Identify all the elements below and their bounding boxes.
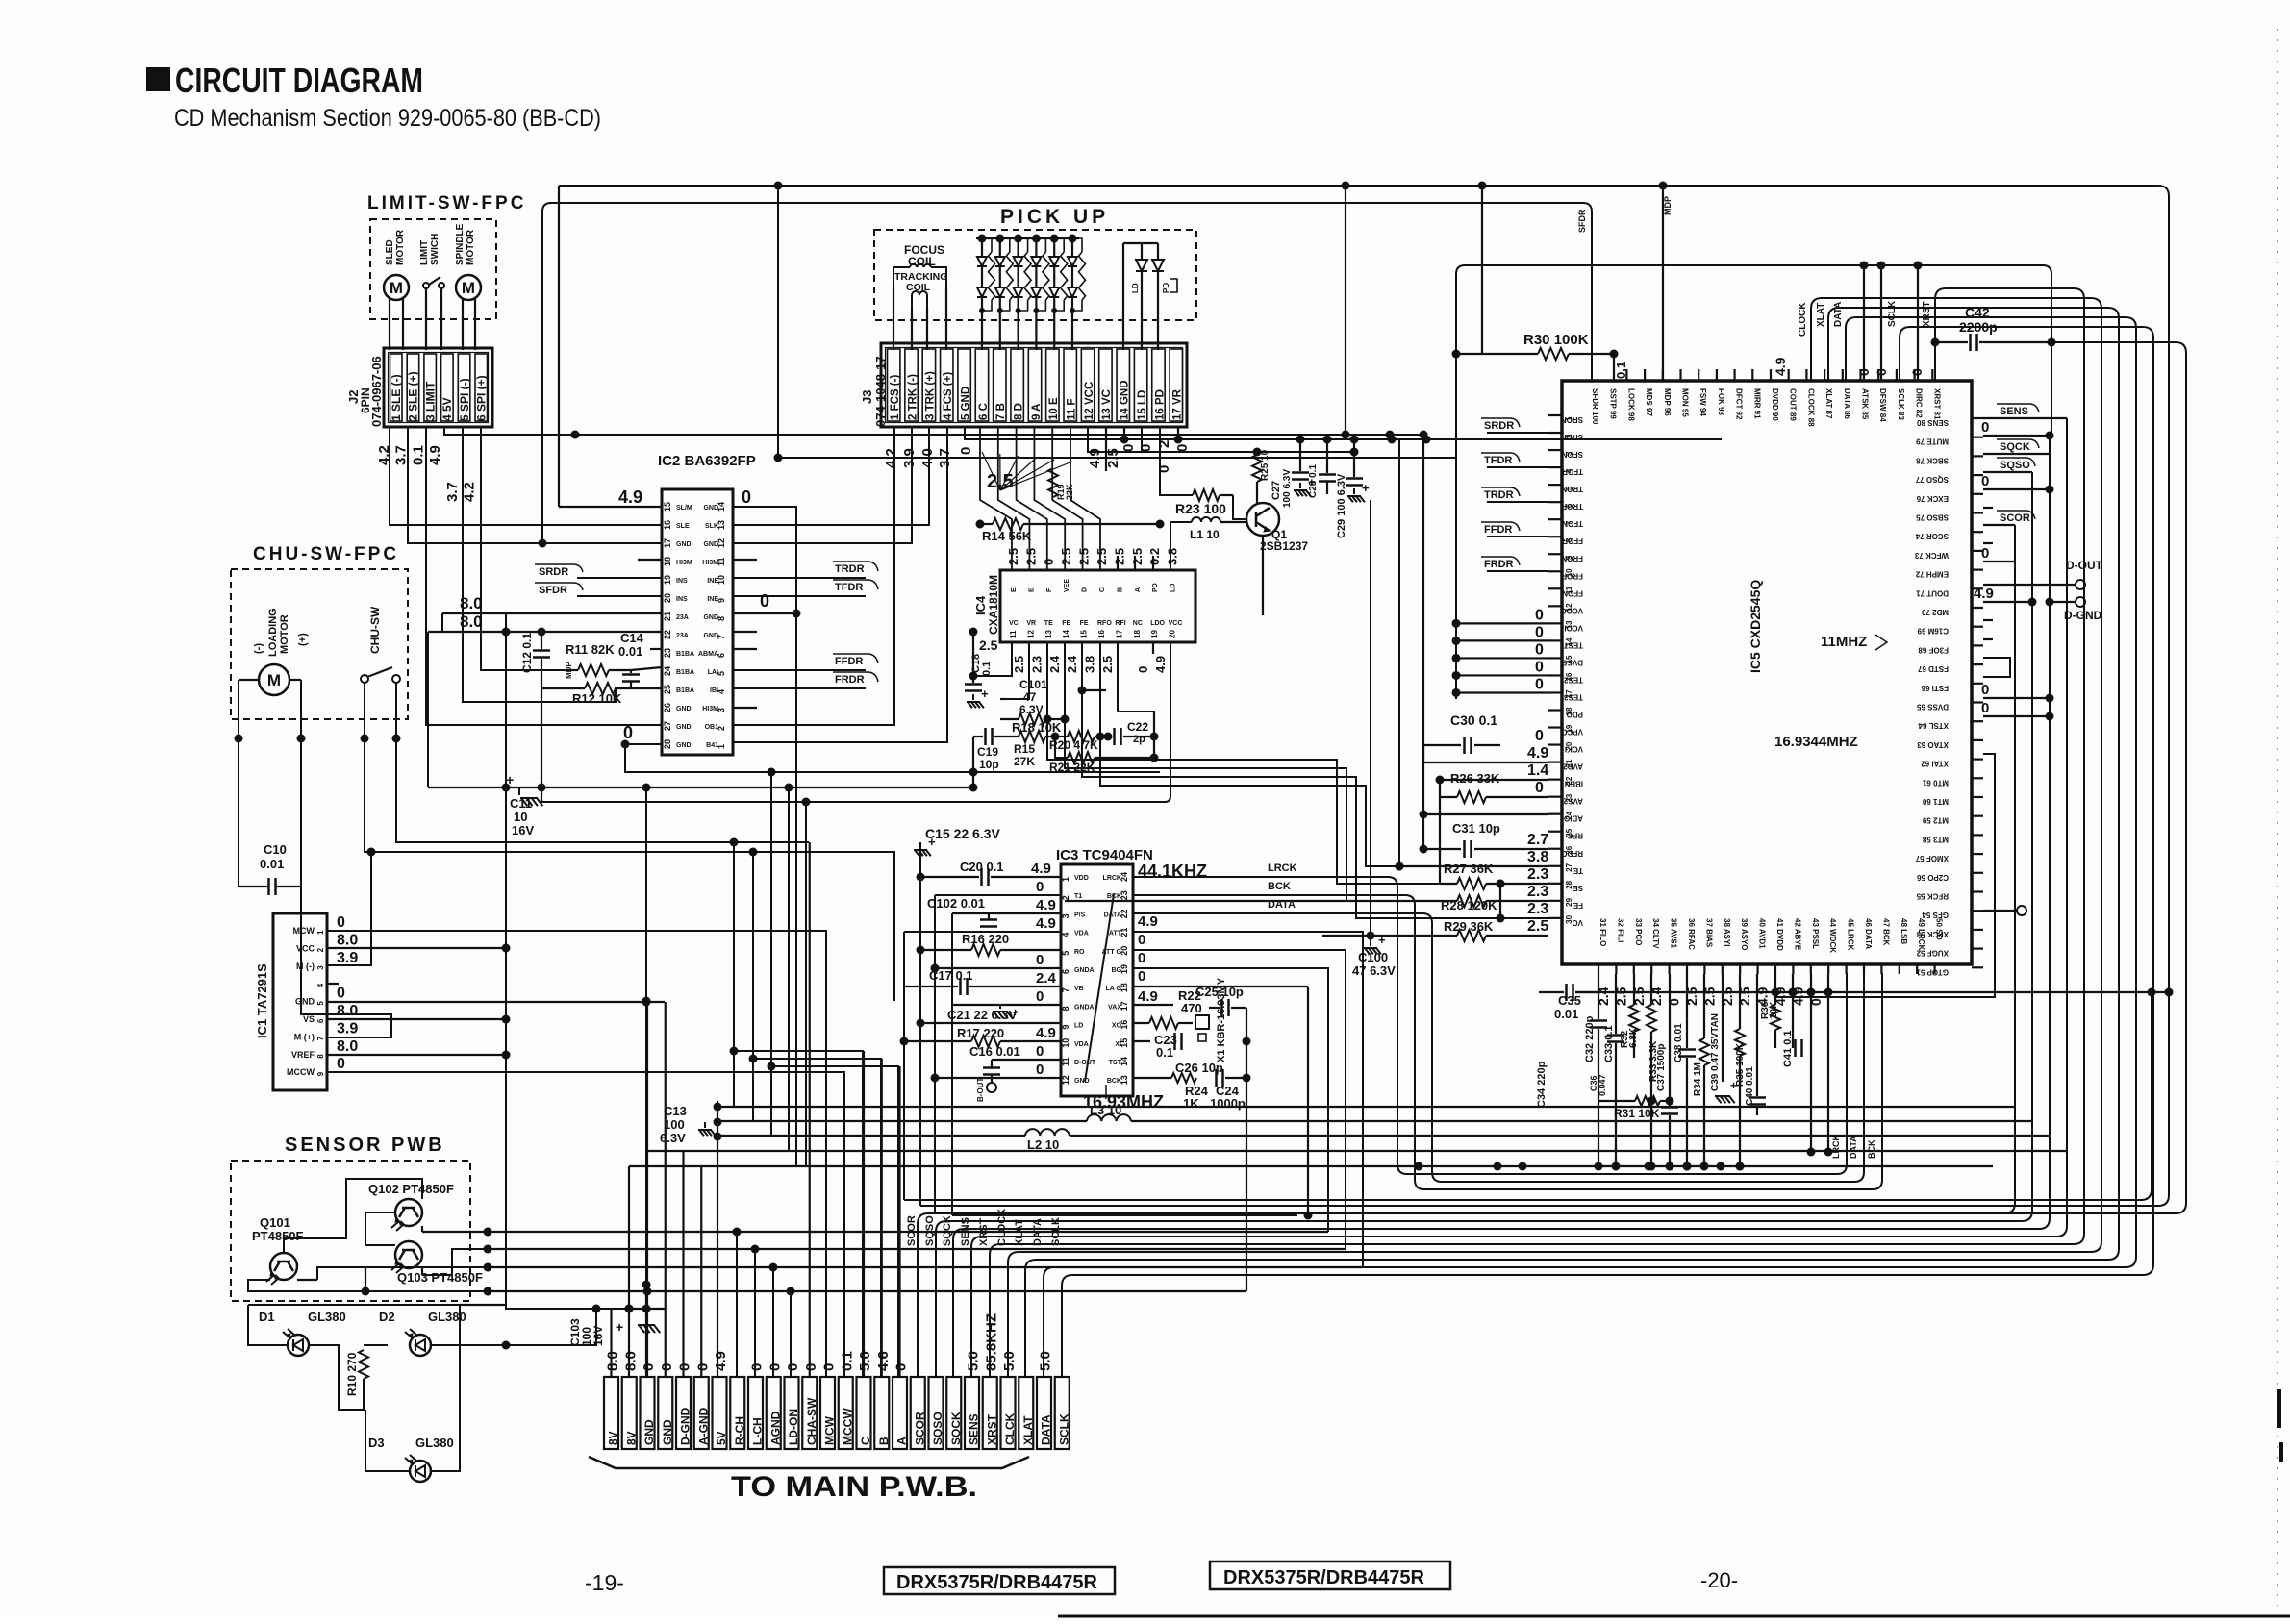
svg-text:8.0: 8.0 bbox=[337, 1038, 358, 1055]
wire IC2 pin13 to J3 pin3 bbox=[733, 427, 929, 525]
svg-text:DATA: DATA bbox=[1104, 912, 1121, 918]
wire DOUT pin71 to D-OUT bbox=[1983, 584, 2076, 586]
IC5 pin 57 XMOF bbox=[1972, 853, 1983, 855]
svg-text:C35: C35 bbox=[1558, 993, 1581, 1008]
motor LOADING bbox=[259, 664, 289, 695]
svg-text:XLAT 87: XLAT 87 bbox=[1824, 388, 1833, 419]
wire sensor 8V feed bbox=[506, 1309, 596, 1345]
IC5 pin 96 MDP bbox=[1662, 369, 1664, 381]
IC5 pin 23 AVS2 bbox=[1548, 796, 1562, 798]
pickup resistor 6 bbox=[1072, 238, 1082, 252]
IC5 pin 90 DVDD bbox=[1770, 369, 1772, 381]
IC5 pin 6 TROR bbox=[1548, 501, 1562, 503]
svg-text:26: 26 bbox=[663, 703, 672, 712]
wire vertical x=1399 from H1 to 5V line bbox=[1345, 186, 1346, 435]
wire connector pin GND bbox=[665, 1002, 667, 1377]
label TFDR wire IC2 pin9 bbox=[733, 595, 866, 597]
svg-text:FOK 93: FOK 93 bbox=[1717, 388, 1725, 416]
transistor Q1 2SB1237 bbox=[1246, 503, 1279, 536]
svg-text:B41: B41 bbox=[706, 742, 718, 749]
IC5 pin 24 ADIO bbox=[1548, 813, 1562, 815]
svg-text:D-OUT: D-OUT bbox=[1074, 1060, 1096, 1066]
svg-text:2SB1237: 2SB1237 bbox=[1260, 539, 1308, 553]
IC5 pin 74 SCOR bbox=[1972, 531, 1983, 533]
IC5 pin 8 FFOR bbox=[1548, 536, 1562, 537]
svg-text:R-CH: R-CH bbox=[733, 1416, 746, 1445]
svg-text:TRDR: TRDR bbox=[835, 563, 865, 575]
J2 pin 1 slot bbox=[390, 354, 403, 421]
svg-text:470: 470 bbox=[1181, 1001, 1202, 1015]
svg-text:0: 0 bbox=[1981, 473, 1989, 489]
svg-text:2 TRK (-): 2 TRK (-) bbox=[907, 374, 919, 420]
svg-text:1.4: 1.4 bbox=[1527, 762, 1548, 779]
wire J3 pin7 to IC4 bbox=[998, 427, 1030, 570]
svg-text:B: B bbox=[877, 1437, 891, 1445]
wire outer right loop from C42 line bbox=[935, 342, 2186, 1213]
svg-text:+: + bbox=[1362, 481, 1370, 495]
IC5 pin 19 VPCO bbox=[1548, 726, 1562, 728]
wire IC5 pin26 RFDC link bbox=[1396, 862, 1404, 871]
svg-text:0: 0 bbox=[803, 1363, 819, 1371]
svg-text:10: 10 bbox=[514, 810, 527, 824]
wire J3 pin10 to IC4 bbox=[1052, 427, 1082, 570]
J3 pin 11 slot bbox=[1064, 349, 1076, 421]
wire pin99 SSTP stub with 0.1 bbox=[1613, 354, 1615, 381]
svg-text:9: 9 bbox=[1061, 1025, 1070, 1030]
svg-text:0: 0 bbox=[1981, 700, 1989, 716]
svg-text:37 BIAS: 37 BIAS bbox=[1704, 918, 1713, 948]
svg-text:PDO: PDO bbox=[1567, 711, 1583, 719]
svg-text:C33 0.1: C33 0.1 bbox=[1603, 1025, 1615, 1062]
svg-text:RFDC: RFDC bbox=[1562, 849, 1583, 858]
svg-text:AVD2: AVD2 bbox=[1563, 762, 1583, 771]
svg-text:4 5V: 4 5V bbox=[440, 397, 454, 421]
svg-text:HI3M: HI3M bbox=[702, 706, 718, 712]
wire IC5 pin34 CLTV extension bbox=[1650, 1101, 1652, 1166]
bus line left stubs bbox=[645, 1285, 647, 1377]
label FFDR wire IC2 pin5 bbox=[733, 669, 866, 671]
svg-text:CXA1810M: CXA1810M bbox=[987, 575, 1000, 635]
wire pins41-43 4.9 bus bbox=[1575, 991, 2169, 993]
svg-text:XMOF 57: XMOF 57 bbox=[1915, 854, 1949, 862]
IC5 pin 7 TFON bbox=[1548, 518, 1562, 520]
svg-text:33 PCO: 33 PCO bbox=[1634, 918, 1643, 945]
pickup photodiode D6 bbox=[1069, 235, 1077, 243]
wire IC2 pin12 to J3 pin2 bbox=[733, 427, 912, 543]
svg-text:SQSO 77: SQSO 77 bbox=[1915, 475, 1949, 484]
wires IC4 top pins 7-9 stubs bbox=[1117, 556, 1119, 570]
wire net XLAT slot24 bbox=[1025, 308, 2119, 1377]
J3 pin 10 slot bbox=[1046, 349, 1059, 421]
svg-text:FFDR: FFDR bbox=[835, 656, 863, 667]
svg-text:AVS2: AVS2 bbox=[1563, 797, 1583, 806]
svg-text:50 SO: 50 SO bbox=[1935, 918, 1944, 940]
svg-text:DVSS 65: DVSS 65 bbox=[1917, 703, 1949, 712]
wire connector pin A bbox=[898, 1066, 900, 1377]
svg-text:C102 0.01: C102 0.01 bbox=[927, 896, 985, 911]
svg-text:16V: 16V bbox=[512, 823, 534, 837]
bus line y=1181 with L2 bbox=[717, 1135, 1025, 1137]
svg-text:INS: INS bbox=[676, 578, 688, 585]
svg-text:FSTI 66: FSTI 66 bbox=[1921, 684, 1949, 692]
svg-text:85.8KHZ: 85.8KHZ bbox=[983, 1313, 999, 1371]
svg-text:TES3: TES3 bbox=[1563, 692, 1583, 701]
IC5 pin 56 C2PO bbox=[1972, 872, 1983, 874]
TO MAIN PWB pin GND bbox=[658, 1377, 672, 1449]
svg-text:2.5: 2.5 bbox=[1006, 548, 1020, 565]
svg-text:2: 2 bbox=[1061, 895, 1070, 900]
wire RFDC column down bbox=[1398, 439, 1400, 866]
svg-text:30: 30 bbox=[1565, 914, 1573, 923]
svg-text:LD: LD bbox=[1170, 584, 1177, 592]
label SFDR wire to IC2 pin20 bbox=[577, 595, 662, 597]
svg-text:C15 22 6.3V: C15 22 6.3V bbox=[925, 826, 1000, 841]
IC5 pin 49 LRCK bbox=[1916, 964, 1918, 974]
svg-text:MT0 61: MT0 61 bbox=[1922, 778, 1949, 787]
wire IC1 VREF 8.0 bbox=[327, 1054, 506, 1056]
resistor R19 22K bbox=[1048, 468, 1058, 497]
IC5 pin 89 COUT bbox=[1788, 369, 1790, 381]
svg-text:CHU-SW-FPC: CHU-SW-FPC bbox=[253, 544, 399, 564]
svg-text:0.1: 0.1 bbox=[410, 445, 426, 465]
svg-text:LOADING: LOADING bbox=[267, 608, 279, 657]
svg-text:22K: 22K bbox=[1065, 484, 1074, 500]
IC5 pin 85 ATSK bbox=[1859, 369, 1861, 381]
TO MAIN PWB pin SCOR bbox=[911, 1377, 925, 1449]
svg-text:SBSO 75: SBSO 75 bbox=[1916, 513, 1949, 522]
svg-text:VS: VS bbox=[303, 1014, 315, 1024]
svg-text:FE: FE bbox=[1062, 620, 1070, 627]
J3 pin 15 slot bbox=[1134, 349, 1146, 421]
svg-text:FRON: FRON bbox=[1561, 554, 1583, 562]
IC5 pin 82 DIRC bbox=[1913, 369, 1915, 381]
wire C100 column bbox=[1370, 500, 1371, 936]
pickup photodiode D2 bbox=[995, 235, 1004, 243]
svg-text:19: 19 bbox=[663, 575, 672, 585]
IC5 pin 91 MIRR bbox=[1751, 369, 1753, 381]
svg-text:D-GND: D-GND bbox=[2064, 609, 2102, 622]
label TRDR wire IC2 pin10 bbox=[733, 577, 866, 579]
IC5 pin 63 XTAO bbox=[1972, 739, 1983, 741]
svg-text:4: 4 bbox=[1061, 933, 1070, 937]
svg-text:4.9: 4.9 bbox=[1773, 357, 1788, 376]
svg-text:XO: XO bbox=[1112, 1023, 1122, 1030]
IC5 pin 86 DATA bbox=[1842, 369, 1844, 381]
J2 pin 5 slot bbox=[458, 354, 470, 421]
wire H1 right loop bbox=[559, 186, 2169, 1206]
svg-text:23A: 23A bbox=[676, 633, 689, 639]
svg-text:0: 0 bbox=[1535, 659, 1544, 675]
wire J3 pin6 to IC4 bbox=[980, 427, 1012, 570]
svg-text:0: 0 bbox=[694, 1363, 711, 1371]
wire DATA IC3 pin22 to IC5 pin46 bbox=[1133, 913, 1864, 1182]
svg-text:VPCO: VPCO bbox=[1561, 728, 1583, 737]
svg-text:4.9: 4.9 bbox=[427, 445, 443, 465]
wire CHU-SW right down bbox=[396, 683, 809, 842]
IC5 pin 75 SBSO bbox=[1972, 512, 1983, 513]
svg-text:6 C: 6 C bbox=[978, 403, 990, 420]
tracking coil symbol bbox=[911, 295, 913, 308]
svg-text:2.5: 2.5 bbox=[1012, 656, 1026, 673]
wire SQSO curve pin77 bbox=[1983, 471, 2032, 473]
svg-text:2.3: 2.3 bbox=[1527, 866, 1548, 883]
svg-text:-19-: -19- bbox=[585, 1570, 624, 1595]
J3 pin 4 slot bbox=[941, 349, 953, 421]
wire GFS pin54 test point bbox=[1983, 910, 2017, 912]
IC5 pin 9 FRON bbox=[1548, 553, 1562, 555]
svg-text:TEST: TEST bbox=[1563, 640, 1583, 649]
svg-text:VDA: VDA bbox=[1074, 1041, 1089, 1048]
svg-text:4.6: 4.6 bbox=[875, 1351, 892, 1371]
TO MAIN PWB pin C bbox=[857, 1377, 871, 1449]
wire vertical x=1497 bbox=[1439, 780, 1441, 884]
svg-text:VR: VR bbox=[1026, 620, 1036, 627]
svg-text:M: M bbox=[390, 279, 403, 297]
svg-text:SENS: SENS bbox=[968, 1413, 981, 1445]
svg-text:8.0: 8.0 bbox=[622, 1351, 639, 1371]
junction dots on y=276 rail bbox=[1860, 262, 1869, 270]
svg-text:SQSO: SQSO bbox=[2000, 460, 2030, 471]
svg-text:DATA: DATA bbox=[1040, 1414, 1053, 1445]
svg-text:R31 10K: R31 10K bbox=[1614, 1107, 1660, 1120]
svg-text:6: 6 bbox=[316, 1018, 325, 1023]
label SRDR wire to IC2 pin19 bbox=[577, 577, 662, 579]
J3 pin 1 slot bbox=[888, 349, 900, 421]
svg-text:4.0: 4.0 bbox=[919, 448, 936, 468]
IC5 pin 69 C16M bbox=[1972, 626, 1983, 628]
wire Q1 collector down bbox=[1262, 536, 1264, 615]
svg-text:R25 10: R25 10 bbox=[1260, 449, 1271, 481]
svg-text:3: 3 bbox=[316, 965, 325, 970]
IC5 pin 53 XPCK bbox=[1972, 929, 1983, 931]
svg-text:100: 100 bbox=[664, 1117, 685, 1132]
svg-text:3.7: 3.7 bbox=[444, 482, 461, 502]
svg-text:0: 0 bbox=[1036, 1062, 1044, 1078]
svg-text:6.3V: 6.3V bbox=[660, 1131, 686, 1145]
TO MAIN PWB pin D-GND bbox=[676, 1377, 691, 1449]
wire IC2 pin21 8.0 bbox=[442, 612, 662, 614]
svg-text:MT2 59: MT2 59 bbox=[1922, 816, 1949, 825]
wire IC1 MCCW to connector MCCW bbox=[327, 1072, 844, 1377]
svg-text:41 DVDD: 41 DVDD bbox=[1775, 918, 1784, 951]
svg-text:16 PD: 16 PD bbox=[1154, 389, 1166, 420]
svg-text:GND: GND bbox=[676, 724, 692, 731]
wire IC2 pin6 stub bbox=[733, 648, 757, 650]
TO MAIN PWB pin R-CH bbox=[730, 1377, 744, 1449]
svg-text:MCCW: MCCW bbox=[287, 1067, 315, 1077]
svg-text:TST: TST bbox=[1109, 1060, 1122, 1066]
svg-text:23: 23 bbox=[663, 648, 672, 658]
svg-text:36 RFAC: 36 RFAC bbox=[1687, 918, 1696, 950]
svg-text:49 LRCK: 49 LRCK bbox=[1917, 918, 1925, 951]
TO MAIN PWB pin SQCK bbox=[946, 1377, 961, 1449]
wire J3 pin13 down bbox=[1105, 427, 1107, 471]
svg-text:LIMIT-SW-FPC: LIMIT-SW-FPC bbox=[367, 193, 526, 213]
svg-text:R12 10K: R12 10K bbox=[572, 691, 622, 706]
svg-text:14 GND: 14 GND bbox=[1120, 380, 1131, 420]
wire IC4 pin11 down bbox=[973, 642, 1012, 676]
svg-text:17: 17 bbox=[663, 538, 672, 548]
svg-text:C30 0.1: C30 0.1 bbox=[1450, 712, 1497, 728]
svg-text:CLCK: CLCK bbox=[1003, 1412, 1017, 1445]
svg-text:5 SPI (-): 5 SPI (-) bbox=[458, 378, 471, 421]
IC5 pin 44 WDCK bbox=[1827, 964, 1829, 974]
IC5 pin 30 VC bbox=[1548, 917, 1562, 919]
IC5 pin 45 LRCK bbox=[1845, 964, 1847, 974]
svg-text:GNDA: GNDA bbox=[1074, 967, 1095, 974]
svg-text:B-OUT: B-OUT bbox=[976, 1078, 985, 1102]
svg-text:8.0: 8.0 bbox=[337, 1003, 358, 1019]
diode wires bbox=[248, 1305, 288, 1345]
J2 pin 2 slot bbox=[407, 354, 419, 421]
transistor Q103 PT4850F bbox=[395, 1241, 422, 1268]
svg-text:C27: C27 bbox=[1271, 481, 1282, 500]
wire net SQSO slot19 bbox=[936, 472, 2032, 1377]
wire IC2 pin8 0 bbox=[733, 612, 796, 614]
svg-text:1K: 1K bbox=[1183, 1096, 1199, 1111]
svg-text:GND: GND bbox=[642, 1419, 656, 1445]
IC5 pin 42 ABYE bbox=[1792, 964, 1794, 974]
J3 pin 5 slot bbox=[958, 349, 970, 421]
IC5 pin 98 LOCK bbox=[1625, 369, 1627, 381]
svg-text:5: 5 bbox=[1061, 951, 1070, 956]
svg-text:5V: 5V bbox=[715, 1431, 728, 1445]
IC5 pin 76 EXCK bbox=[1972, 493, 1983, 495]
svg-text:8.0: 8.0 bbox=[605, 1351, 621, 1371]
svg-text:20: 20 bbox=[663, 593, 672, 603]
svg-text:IBEN: IBEN bbox=[1565, 780, 1583, 788]
svg-text:SFDR: SFDR bbox=[1577, 209, 1587, 233]
svg-text:SE: SE bbox=[1573, 884, 1583, 892]
svg-text:PD: PD bbox=[1162, 283, 1170, 293]
svg-text:2.5: 2.5 bbox=[1130, 548, 1145, 565]
svg-text:E: E bbox=[1028, 587, 1035, 592]
svg-text:19: 19 bbox=[1150, 630, 1159, 638]
svg-text:Q103 PT4850F: Q103 PT4850F bbox=[397, 1270, 483, 1285]
svg-text:COUT 89: COUT 89 bbox=[1789, 388, 1798, 421]
svg-text:0: 0 bbox=[1136, 666, 1150, 673]
J2 pin 6 slot bbox=[475, 354, 488, 421]
wire C13 vertical bbox=[717, 1101, 718, 1377]
wire mid vertical right of IC3 bbox=[1307, 987, 1309, 1215]
staircase verticals from middle bbox=[733, 842, 735, 1107]
svg-text:C14: C14 bbox=[620, 631, 644, 645]
svg-text:EXCK 76: EXCK 76 bbox=[1916, 494, 1949, 503]
svg-text:J3: J3 bbox=[860, 390, 874, 404]
svg-text:1000p: 1000p bbox=[1210, 1096, 1246, 1111]
J3 pin 13 slot bbox=[1099, 349, 1112, 421]
svg-text:TE: TE bbox=[1044, 620, 1053, 627]
svg-text:0: 0 bbox=[1138, 950, 1145, 966]
svg-text:BCK: BCK bbox=[1107, 893, 1121, 900]
svg-text:0: 0 bbox=[1036, 988, 1044, 1005]
svg-text:TFDR: TFDR bbox=[1484, 455, 1512, 466]
svg-text:-20-: -20- bbox=[1700, 1568, 1738, 1592]
svg-text:FE: FE bbox=[1080, 620, 1089, 627]
svg-text:47: 47 bbox=[1023, 690, 1037, 704]
svg-text:VAX: VAX bbox=[1108, 1004, 1121, 1011]
svg-text:GND: GND bbox=[703, 614, 718, 621]
svg-text:VDA: VDA bbox=[1074, 931, 1089, 937]
svg-text:0: 0 bbox=[749, 1363, 766, 1371]
svg-text:XI: XI bbox=[1115, 1041, 1121, 1048]
svg-text:DFSW 84: DFSW 84 bbox=[1878, 388, 1887, 422]
svg-text:BCK: BCK bbox=[1268, 881, 1291, 892]
wire connector pin CHA-SW bbox=[809, 842, 811, 1377]
TO MAIN PWB pin MCCW bbox=[839, 1377, 853, 1449]
svg-text:MT1 60: MT1 60 bbox=[1922, 797, 1949, 806]
label DRX5375R/DRB4475R box 2 bbox=[1210, 1562, 1450, 1589]
IC5 pin 95 MON bbox=[1679, 369, 1681, 381]
IC5 pin 2 SROR bbox=[1548, 432, 1562, 434]
svg-text:ATSK 85: ATSK 85 bbox=[1861, 388, 1870, 420]
resistor R30 100K bbox=[1456, 353, 1538, 355]
IC5 pin 88 CLOCK bbox=[1805, 369, 1807, 381]
pickup photodiode D4 bbox=[1032, 235, 1041, 243]
svg-text:47 6.3V: 47 6.3V bbox=[1352, 963, 1396, 978]
pickup resistor 1 bbox=[982, 238, 992, 252]
wires coils to J3 pins1-4 bbox=[893, 287, 894, 350]
svg-text:4.9: 4.9 bbox=[1974, 586, 1994, 602]
svg-text:FRDR: FRDR bbox=[1484, 559, 1514, 570]
J3 pin 7 slot bbox=[994, 349, 1006, 421]
svg-text:MCW: MCW bbox=[293, 926, 315, 936]
svg-text:16.9344MHZ: 16.9344MHZ bbox=[1774, 734, 1858, 750]
svg-text:C29 100 6.3V: C29 100 6.3V bbox=[1336, 473, 1347, 538]
wire IC2 pin2 to J3 pin1 bbox=[733, 427, 894, 725]
svg-text:16: 16 bbox=[1097, 630, 1106, 638]
wire IC1 MCW to connector MCW bbox=[327, 931, 826, 1377]
svg-text:1 SLE (-): 1 SLE (-) bbox=[390, 374, 403, 421]
IC5 pin 72 EMPH bbox=[1972, 568, 1983, 570]
sensor output wires to right bbox=[488, 1231, 1328, 1233]
wire IC2 pin1 to J3 pin4 bbox=[733, 427, 947, 742]
svg-text:2 SLE (+): 2 SLE (+) bbox=[407, 371, 420, 421]
svg-text:SCLK 83: SCLK 83 bbox=[1897, 388, 1905, 420]
svg-text:0: 0 bbox=[677, 1363, 693, 1371]
svg-text:4.9: 4.9 bbox=[1138, 988, 1158, 1005]
wire FRDR to IC5 pin10 bbox=[1487, 570, 1548, 572]
title block bbox=[146, 67, 170, 91]
svg-text:13: 13 bbox=[1044, 630, 1053, 638]
svg-text:LRCK: LRCK bbox=[1831, 1135, 1841, 1159]
wire net C B A to staircase bbox=[734, 1051, 863, 1377]
svg-text:INE: INE bbox=[707, 578, 718, 585]
TO MAIN PWB pin A bbox=[893, 1377, 907, 1449]
svg-text:GL380: GL380 bbox=[415, 1436, 454, 1450]
wire SENS curve pin80 bbox=[1983, 417, 2067, 419]
svg-text:MDS 97: MDS 97 bbox=[1645, 388, 1653, 416]
svg-text:100 6.3V: 100 6.3V bbox=[1282, 469, 1293, 508]
wire IC1 pin4 stub bbox=[327, 983, 339, 985]
dashed box SENSOR PWB bbox=[231, 1161, 470, 1301]
svg-text:GTOP 51: GTOP 51 bbox=[1916, 967, 1949, 976]
svg-text:OB1: OB1 bbox=[705, 724, 719, 731]
IC5 pin 20 VCKI bbox=[1548, 743, 1562, 745]
wire IC4 pin20 VCC from 4.9 rail bbox=[541, 642, 1170, 802]
IC5 pin 87 XLAT bbox=[1824, 369, 1825, 381]
svg-text:ADIO: ADIO bbox=[1564, 814, 1583, 823]
TO MAIN PWB pin MCW bbox=[820, 1377, 835, 1449]
svg-text:23A: 23A bbox=[676, 614, 689, 621]
IC5 pin 48 LSB bbox=[1899, 964, 1900, 974]
svg-text:PICK UP: PICK UP bbox=[1000, 206, 1109, 228]
J3 pin 9 slot bbox=[1028, 349, 1041, 421]
switch CHU-SW bbox=[361, 675, 368, 683]
wire C16M stub pin69 bbox=[1983, 619, 1993, 621]
svg-text:27: 27 bbox=[1565, 862, 1573, 871]
IC5 pin 81 XRST bbox=[1931, 369, 1933, 381]
